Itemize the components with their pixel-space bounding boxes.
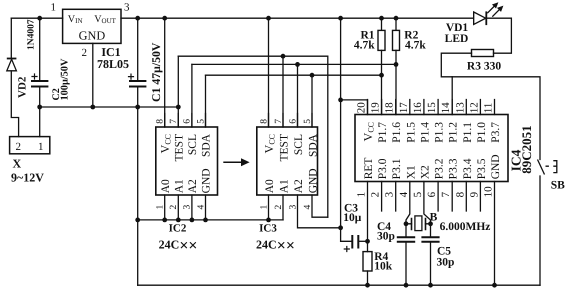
svg-text:VD2: VD2 [17,76,29,98]
junction ground rail / R4 [365,283,370,288]
wire IC3 pin3 A2 to +5V spine [298,195,341,228]
junction ground bus / C2 [37,105,42,110]
junction address line / IC2 pin4 [203,218,208,223]
svg-text:A0: A0 [264,179,276,193]
svg-text:P3.2: P3.2 [434,158,446,179]
svg-text:3: 3 [124,2,130,14]
svg-text:3: 3 [288,205,298,210]
junction +5V rail / R1 [379,16,384,21]
svg-text:2: 2 [370,192,382,198]
capacitor C5 plates [421,237,439,242]
wire R2 leads [395,18,397,114]
wire IC4 pin14 riser from SB line [451,77,453,115]
svg-text:5: 5 [412,191,424,197]
svg-text:P1.0: P1.0 [476,122,488,143]
svg-text:1: 1 [156,205,166,210]
svg-text:P3.1: P3.1 [391,158,403,179]
wire +5V feed spine to IC4/C3 [341,18,353,241]
svg-text:10μ: 10μ [343,212,362,224]
svg-text:1N4007: 1N4007 [26,19,36,50]
svg-text:78L05: 78L05 [97,57,129,71]
wire IC2 bottom pins to address line [165,195,206,220]
wire IC4 pin5 X2 to crystal/C5 [424,182,431,238]
svg-text:GND: GND [79,28,106,42]
junction SCL / R2 / IC4 pin18 [394,62,399,67]
svg-text:2: 2 [274,205,284,210]
wire IC1 GND pin 2 [92,43,94,107]
wire IC3 pin7 riser [282,56,284,127]
crystal B [412,216,426,231]
svg-text:9~12V: 9~12V [11,171,44,185]
diode VD2 [7,59,17,71]
svg-text:4: 4 [196,205,206,210]
wire IC3 pin4 GND to WP line [312,195,328,217]
IC4 89C2051 box [355,115,508,182]
wire bottom ground rail [138,284,540,286]
svg-text:P3.5: P3.5 [476,158,488,179]
wire C1 spine (top rail to ground rail) [137,18,139,285]
junction address line / IC2 pin3 [190,218,195,223]
wire IC2 pin8 Vcc riser [164,18,166,127]
junction ground rail / C4 [404,283,409,288]
svg-text:IC3: IC3 [259,222,277,234]
svg-text:4: 4 [398,191,410,197]
capacitor C2 plus sign [31,73,37,79]
svg-text:11: 11 [483,103,495,114]
resistor R4 [363,252,372,271]
svg-text:P1.7: P1.7 [377,122,389,143]
capacitor C1 plus sign [128,74,134,80]
svg-text:15: 15 [426,102,438,114]
junction +5V rail / C1 [135,16,140,21]
resistor R1 [378,30,385,50]
svg-text:16: 16 [412,102,424,114]
svg-text:7: 7 [169,119,179,124]
svg-text:8: 8 [454,191,466,197]
svg-text:12: 12 [468,102,480,113]
wire IC2 top pin number stubs [165,114,206,128]
svg-text:3: 3 [183,205,193,210]
svg-text:A2: A2 [187,179,199,193]
svg-text:20: 20 [356,102,368,114]
wire IC3 pin5 riser [311,75,313,127]
svg-text:TEST: TEST [174,134,186,161]
svg-text:1: 1 [51,2,57,14]
wire IC3 pin1 A0 [268,195,270,220]
wire C2 branch [39,18,41,136]
junction address line / IC3 pin1 [266,218,271,223]
svg-text:4.7k: 4.7k [354,40,375,52]
resistor R2 [393,30,400,50]
junction +5V rail / IC3 pin8 [266,16,271,21]
svg-text:SCL: SCL [187,134,199,155]
wire IC4 pin20 Vcc feed [341,100,368,115]
junction ground bus / IC1 GND [90,105,95,110]
capacitor C2 plates [31,81,48,87]
wire IC4 pin9 stub [479,182,481,212]
svg-text:10: 10 [483,186,495,198]
capacitor C4 plates [397,237,415,242]
svg-text:IC2: IC2 [169,222,187,234]
wire top +5V rail right [121,17,474,19]
wire IC2 pin6 SCL [191,64,193,127]
wire crystal leads [406,223,431,225]
junction +5V feed / IC3 pin3 [338,225,343,230]
wire C4 bottom lead [405,242,407,285]
wire SCL bus [192,63,396,65]
arrow copy direction IC2 to IC3 [223,158,249,166]
svg-text:P1.6: P1.6 [391,122,403,143]
wire IC4 pin7 stub [451,182,453,212]
svg-text:6: 6 [288,119,298,124]
LED VD1 [474,3,503,25]
wire IC3 pin8 Vcc riser [268,18,270,127]
wire IC4 pin2 stub [381,182,383,212]
svg-text:7: 7 [274,119,284,124]
svg-text:A1: A1 [278,179,290,193]
svg-text:A2: A2 [293,179,305,193]
svg-text:19: 19 [370,102,382,114]
junction ground rail / C5 [428,283,433,288]
wire R4 bottom lead [367,271,369,285]
svg-text:X2: X2 [419,165,431,179]
svg-text:5: 5 [303,119,313,124]
switch SB [538,160,557,175]
svg-text:P3.0: P3.0 [377,158,389,179]
svg-text:6: 6 [183,119,193,124]
wire IC4 pin6 stub [437,182,439,212]
svg-text:X: X [13,157,22,171]
svg-text:1: 1 [38,141,44,153]
svg-text:3: 3 [384,191,396,197]
svg-text:A0: A0 [160,179,172,193]
junction +5V rail / C2 [37,16,42,21]
svg-text:6: 6 [426,191,438,197]
svg-text:GND: GND [201,168,213,193]
capacitor C3 plates (polarized, horizontal) [352,235,358,249]
svg-text:30p: 30p [437,257,455,269]
wire SB bottom to ground rail [539,176,541,285]
junction SDA / IC3 pin5 [310,73,315,78]
svg-text:X1: X1 [405,165,417,179]
svg-text:8: 8 [156,119,166,124]
IC3 box [257,127,318,195]
svg-text:10k: 10k [374,261,393,273]
svg-text:8: 8 [259,119,269,124]
svg-text:7: 7 [440,191,452,197]
svg-text:1: 1 [259,205,269,210]
junction SCL / IC3 pin6 [295,62,300,67]
svg-text:4: 4 [303,205,313,210]
IC1 78L05 box [63,9,121,43]
svg-text:SB: SB [551,180,565,192]
wire IC4 pin10 GND to ground rail [494,182,496,286]
junction address line / IC2 pin2 [176,218,181,223]
wire IC4 pin3 stub [395,182,397,212]
capacitor C3 plus sign [344,246,350,252]
svg-text:GND: GND [307,168,319,193]
wire R3 left lead to SB node [441,53,540,159]
svg-text:100μ/50V: 100μ/50V [60,58,71,100]
svg-text:P1.5: P1.5 [405,122,417,143]
svg-text:P1.2: P1.2 [448,122,460,143]
svg-text:1: 1 [356,192,368,198]
junction WP line / IC3 pin7 [281,54,286,59]
svg-text:SDA: SDA [307,133,319,157]
svg-text:89C2051: 89C2051 [519,125,534,173]
svg-text:14: 14 [440,102,452,114]
svg-text:R3 330: R3 330 [467,61,501,73]
svg-text:P1.1: P1.1 [462,122,474,143]
wire C3 right lead [358,240,367,242]
junction +5V rail / IC4 feed [338,16,343,21]
wire SDA bus [206,74,382,76]
svg-text:6.000MHz: 6.000MHz [440,221,491,233]
wire VD2 branch [11,18,18,136]
junction +5V rail / IC2 pin8 [162,16,167,21]
wire IC3 pin6 riser [297,64,299,127]
svg-text:2: 2 [82,47,88,59]
wire address ground line [138,219,283,221]
svg-text:SCL: SCL [293,134,305,155]
junction SDA / R1 / IC4 pin19 [379,73,384,78]
junction reset node RET/C3/R4 [365,239,370,244]
svg-text:P3.3: P3.3 [448,158,460,179]
wire IC2 pin7 TEST [177,56,179,127]
IC2 box [156,127,218,195]
wire top +5V rail left [11,17,62,19]
svg-text:LED: LED [445,33,469,45]
wire IC3 pin2 A1 [282,195,284,220]
wire IC4 pin1 RET to reset node [367,182,369,252]
svg-text:17: 17 [398,102,410,114]
wire IC4 pin4 X1 to crystal/C4 [406,182,410,238]
svg-text:9: 9 [468,191,480,197]
junction X2 / crystal / C5 [428,221,433,226]
junction ground rail / IC4 pin10 [492,283,497,288]
svg-text:30p: 30p [377,231,395,243]
wire IC3 top pin number stubs [269,114,313,128]
wire LED cathode to corner [486,18,511,53]
svg-text:13: 13 [454,102,466,114]
junction ground bus / C1 [135,105,140,110]
wire ground bus under IC1 [40,106,179,108]
svg-text:P3.7: P3.7 [490,122,502,143]
wire IC4 pin8 stub [465,182,467,212]
svg-text:18: 18 [384,102,396,114]
resistor R3 [472,50,494,57]
wire IC2 pin5 SDA [205,75,207,127]
svg-text:P1.4: P1.4 [419,122,431,143]
capacitor C1 plates [129,81,146,87]
connector X box [10,137,50,154]
wire WP line (IC2 pin7 to IC3 pin7 and pin4) [178,56,327,217]
junction address line / C1 spine [135,218,140,223]
svg-text:TEST: TEST [278,134,290,161]
svg-text:C1 47μ/50V: C1 47μ/50V [149,42,163,102]
junction address line / IC2 pin1 [162,218,167,223]
svg-text:SDA: SDA [201,133,213,157]
svg-text:4.7k: 4.7k [405,40,426,52]
svg-text:GND: GND [490,154,502,179]
svg-text:5: 5 [196,119,206,124]
wire R1 leads [381,18,383,114]
svg-text:A1: A1 [174,179,186,193]
svg-text:RET: RET [363,158,375,180]
svg-text:2: 2 [169,205,179,210]
svg-text:P3.4: P3.4 [462,158,474,179]
junction ground bus / IC2 pin7 [176,105,181,110]
svg-text:P1.3: P1.3 [434,122,446,143]
svg-text:B: B [430,212,438,224]
wire IC4 top pin stubs [368,100,495,115]
junction +5V rail / R2 [394,16,399,21]
junction +5V feed / IC4 pin20 [338,98,343,103]
wire C5 bottom lead [430,242,432,285]
junction X1 / crystal / C4 [404,221,409,226]
svg-text:2: 2 [16,141,22,153]
